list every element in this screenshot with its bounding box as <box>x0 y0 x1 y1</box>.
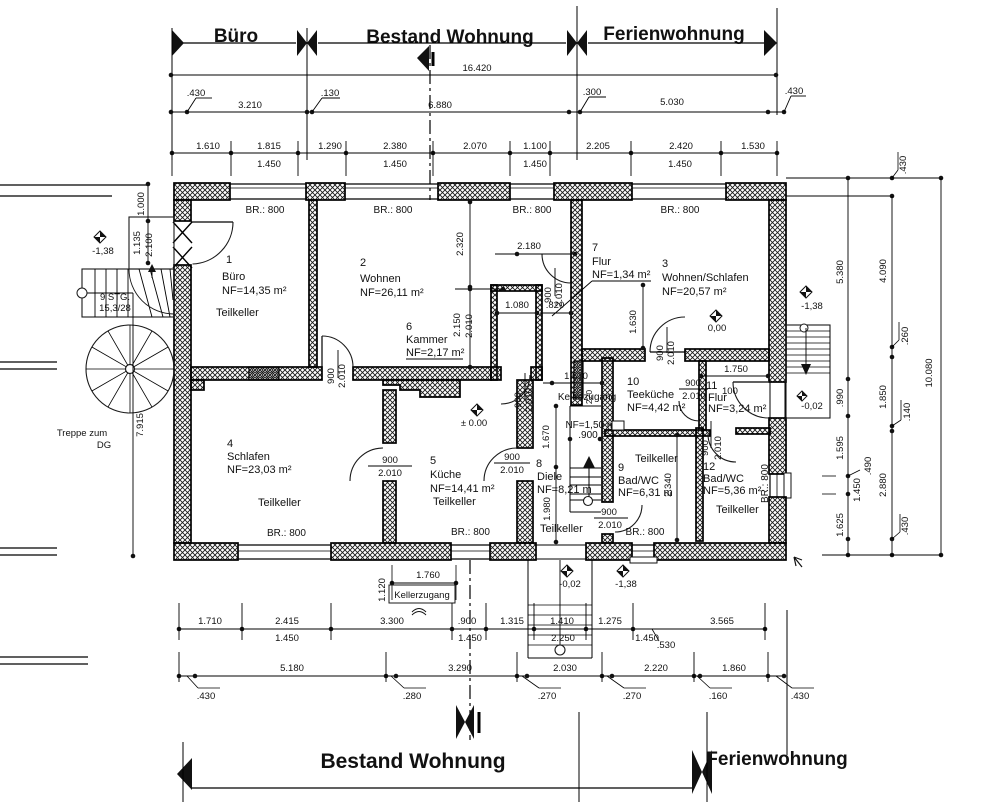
kueche right wall upper <box>517 380 533 448</box>
svg-text:.530: .530 <box>657 640 676 651</box>
wall X mark lower <box>173 247 192 268</box>
outer bottom wall pier 174-238 <box>174 543 238 560</box>
dim 1.610 line <box>543 382 602 384</box>
door room3 leaf <box>650 351 685 353</box>
chain2 dot 187 <box>185 110 190 115</box>
chain B1 dot 586 <box>584 627 589 632</box>
svg-text:.260: .260 <box>900 327 911 346</box>
svg-text:2.150: 2.150 <box>452 313 463 337</box>
bottom bowtie <box>692 750 702 794</box>
room12 door dim line rot <box>710 421 712 448</box>
svg-text:1.450: 1.450 <box>257 159 281 170</box>
chain B2 dot 396 <box>394 674 399 679</box>
right chain A dot 494 <box>846 492 851 497</box>
section marker bottom bar <box>478 712 481 733</box>
chain B2 dot 179 <box>177 674 182 679</box>
svg-text:.900: .900 <box>578 430 598 441</box>
chain3 dot 721 <box>719 151 724 156</box>
chain B2 dot 517 <box>515 674 520 679</box>
svg-text:1.315: 1.315 <box>500 616 524 627</box>
svg-text:2.010: 2.010 <box>713 436 724 460</box>
kellerzugang box <box>389 585 455 603</box>
kammer left wall <box>491 285 497 380</box>
chain B1 tick 534 <box>533 603 535 640</box>
outer bottom wall pier 586-632 <box>586 543 632 560</box>
chain B1 dot 486 <box>484 627 489 632</box>
wall V4 between 10 and 11 <box>699 361 706 430</box>
level -0,02 bottom diamond <box>561 565 573 577</box>
new wall single hatch H1 <box>249 367 279 380</box>
kellerzugang landing rect <box>612 421 624 430</box>
svg-text:900: 900 <box>700 440 711 456</box>
bottom vertical x707 <box>706 712 708 802</box>
svg-text:8: 8 <box>536 458 542 470</box>
right dim .140 leader <box>892 420 901 426</box>
chain3 dot 231 <box>229 151 234 156</box>
dim 2.320 dots <box>468 200 473 205</box>
section marker top triangle <box>417 46 429 71</box>
door corridor .820 arc <box>542 254 571 283</box>
right chain B dot 426 <box>890 424 895 429</box>
chain B2 tick 694 <box>693 652 695 682</box>
svg-text:1.670: 1.670 <box>541 425 552 449</box>
room3 door dim line rot <box>666 327 668 353</box>
right wall window <box>769 474 771 497</box>
svg-text:1.100: 1.100 <box>523 141 547 152</box>
svg-text:Ferienwohnung: Ferienwohnung <box>603 24 744 45</box>
svg-text:2.100: 2.100 <box>144 233 155 257</box>
svg-text:Bestand Wohnung: Bestand Wohnung <box>366 27 533 48</box>
svg-text:1.750: 1.750 <box>724 364 748 375</box>
kammer floor right <box>531 367 542 380</box>
porch dim dot a <box>146 182 151 187</box>
dim 1.760 witness <box>391 565 393 600</box>
boundary line low a <box>0 547 57 549</box>
section line top <box>429 45 431 200</box>
svg-text:1.450: 1.450 <box>275 633 299 644</box>
dim 1.760 line <box>392 582 456 584</box>
wall V2 corridor-flur <box>571 200 582 405</box>
kellerzugang start circle <box>584 497 593 506</box>
svg-text:NF=2,17 m²: NF=2,17 m² <box>406 347 465 359</box>
svg-text:DG: DG <box>97 440 111 451</box>
chain B2 dot 386 <box>384 674 389 679</box>
svg-text:Teilkeller: Teilkeller <box>540 523 583 535</box>
door kueche-diele arc <box>484 448 517 481</box>
svg-text:Wohnen: Wohnen <box>360 273 401 285</box>
svg-text:1.980: 1.980 <box>542 497 553 521</box>
door kammer arc <box>501 375 530 404</box>
outer bottom wall pier 331-451 <box>331 543 451 560</box>
stair walk arc <box>129 269 174 314</box>
svg-text:1.450: 1.450 <box>523 159 547 170</box>
outer right wall lower <box>769 497 786 543</box>
porch dim dot b <box>146 219 151 224</box>
chain2 dot 312 <box>310 110 315 115</box>
svg-text:2.010: 2.010 <box>378 468 402 479</box>
right chain B dot 431 <box>890 429 895 434</box>
svg-text:.270: .270 <box>538 691 557 702</box>
svg-text:NF=1,34 m²: NF=1,34 m² <box>592 269 651 281</box>
right chain B dot 555 <box>890 553 895 558</box>
chain B2 tick 179 <box>178 652 180 682</box>
level marker -1,38 left diamond <box>94 231 106 243</box>
svg-text:3.290: 3.290 <box>448 663 472 674</box>
svg-text:1.530: 1.530 <box>741 141 765 152</box>
right wall window sill <box>784 473 791 498</box>
chain B2 dot 527 <box>525 674 530 679</box>
chain B2 tick 517 <box>516 652 518 682</box>
door room3 arc <box>650 317 685 352</box>
svg-text:.130: .130 <box>321 88 340 99</box>
chain B2 dot 195 <box>193 674 198 679</box>
spiral dim dot bottom <box>131 554 136 559</box>
outer top wall pier 726-786 <box>726 183 786 200</box>
svg-text:1.000: 1.000 <box>136 192 147 216</box>
svg-text:.430: .430 <box>187 88 206 99</box>
svg-text:6.880: 6.880 <box>428 100 452 111</box>
svg-text:Büro: Büro <box>214 26 258 47</box>
svg-text:10: 10 <box>627 376 639 388</box>
svg-text:Schlafen: Schlafen <box>227 451 270 463</box>
svg-text:-0,02: -0,02 <box>559 579 581 590</box>
chain B1 dot 452 <box>450 627 455 632</box>
wall H1 mid segment <box>353 367 491 380</box>
chain2 dot 580 <box>578 110 583 115</box>
kellerzugang dim dots <box>568 437 573 442</box>
svg-text:BR.: 800: BR.: 800 <box>267 528 306 539</box>
svg-text:BR.: 800: BR.: 800 <box>374 205 413 216</box>
svg-text:.300: .300 <box>583 87 602 98</box>
wall 9-12 <box>696 428 703 541</box>
svg-text:2.010: 2.010 <box>500 465 524 476</box>
chain B2 leader .160 at 718 <box>697 676 710 688</box>
flur7 door dim line rot <box>554 268 556 296</box>
door teekueche arc <box>679 401 699 421</box>
chain2 dot 171 <box>169 110 174 115</box>
chain B1 tick 242 <box>241 603 243 640</box>
svg-text:1.290: 1.290 <box>318 141 342 152</box>
svg-text:2.010: 2.010 <box>598 520 622 531</box>
top vertical x172 <box>171 28 173 160</box>
wall H1 left segment <box>191 367 322 380</box>
outer bottom wall pier 654-786 <box>654 543 786 560</box>
boundary line mid b <box>0 368 57 370</box>
svg-text:900: 900 <box>543 287 554 303</box>
section marker top bar <box>432 52 435 66</box>
svg-text:1.410: 1.410 <box>550 616 574 627</box>
dim 16.420 line <box>171 74 776 76</box>
chain B1 tick 486 <box>485 603 487 640</box>
chain2 dot 768 <box>766 110 771 115</box>
top label line seg2 <box>318 42 566 44</box>
chain B1 tick 586 <box>585 603 587 640</box>
svg-text:NF=26,11 m²: NF=26,11 m² <box>360 287 424 299</box>
right chain B dot 357 <box>890 355 895 360</box>
svg-text:Teilkeller: Teilkeller <box>216 307 259 319</box>
door5d dim line <box>494 462 530 464</box>
chain3 dot 631 <box>629 151 634 156</box>
svg-text:1.450: 1.450 <box>852 478 863 502</box>
svg-text:BR.: 800: BR.: 800 <box>661 205 700 216</box>
svg-text:2.010: 2.010 <box>524 388 535 412</box>
svg-text:-1,38: -1,38 <box>92 246 114 257</box>
top vertical x777 <box>776 8 778 115</box>
door buero arc <box>193 222 234 264</box>
svg-text:.140: .140 <box>902 403 913 422</box>
svg-text:1.450: 1.450 <box>458 633 482 644</box>
svg-text:1.710: 1.710 <box>198 616 222 627</box>
svg-text:.900: .900 <box>458 616 477 627</box>
svg-text:1.120: 1.120 <box>377 578 388 602</box>
wall room3 floor right <box>685 349 769 361</box>
svg-text:1.135: 1.135 <box>132 231 143 255</box>
chain3 dot 510 <box>508 151 513 156</box>
porch dim dot c <box>146 261 151 266</box>
boundary line top a <box>0 184 148 186</box>
right stair witness a <box>822 475 836 477</box>
right level -0,02 diamond <box>797 391 807 401</box>
chain B1 tick 331 <box>330 603 332 640</box>
bottom window sill 632-654 <box>630 557 657 563</box>
outer top wall pier 306-345 <box>306 183 345 200</box>
wall room12 top <box>736 428 770 434</box>
dim 1.980 line <box>555 467 557 542</box>
boundary line low b <box>0 554 57 556</box>
svg-text:2.205: 2.205 <box>586 141 610 152</box>
svg-text:-1,38: -1,38 <box>615 579 637 590</box>
svg-text:7.915: 7.915 <box>135 413 146 437</box>
svg-text:900: 900 <box>601 507 617 518</box>
dim .820 line <box>540 312 571 314</box>
svg-text:± 0.00: ± 0.00 <box>461 418 487 429</box>
svg-text:Teilkeller: Teilkeller <box>635 453 678 465</box>
dim chain2 line <box>171 111 784 113</box>
chain3 dot 172 <box>170 151 175 156</box>
outer left wall lower <box>174 265 191 543</box>
door room4-5 arc <box>350 448 383 481</box>
bottom vertical x183 <box>182 742 184 802</box>
chain B1 dot 242 <box>240 627 245 632</box>
wall V3 lower pier <box>602 534 613 543</box>
svg-text:0,00: 0,00 <box>708 323 727 334</box>
chain B1 dot 179 <box>177 627 182 632</box>
right bottom ref line <box>822 554 941 556</box>
svg-text:3.210: 3.210 <box>238 100 262 111</box>
svg-text:.270: .270 <box>623 691 642 702</box>
svg-text:BR.: 800: BR.: 800 <box>451 527 490 538</box>
svg-text:Teilkeller: Teilkeller <box>258 497 301 509</box>
svg-text:NF=3,24 m²: NF=3,24 m² <box>708 403 767 415</box>
chain B2 leader .270 at 632 <box>607 676 624 688</box>
svg-text:1.630: 1.630 <box>628 310 639 334</box>
boundary line bottom b <box>0 663 88 665</box>
new wall single hatch V2 <box>574 361 583 398</box>
svg-text:1.080: 1.080 <box>505 300 529 311</box>
svg-text:BR.: 800: BR.: 800 <box>513 205 552 216</box>
chain B1 dot 633 <box>631 627 636 632</box>
section line bottom <box>469 560 471 740</box>
chain3 tick 346 <box>345 141 347 176</box>
kellerzugang stair treads <box>569 406 571 512</box>
stair walk arrow <box>151 269 153 278</box>
chain B2 leader .430 at 800 <box>776 676 792 688</box>
svg-text:2.880: 2.880 <box>878 473 889 497</box>
chain3 dot 777 <box>775 151 780 156</box>
svg-text:NF=4,42 m²: NF=4,42 m² <box>627 402 686 414</box>
svg-text:.280: .280 <box>403 691 422 702</box>
svg-text:6: 6 <box>406 321 412 333</box>
chain B2 dot 602 <box>600 674 605 679</box>
section marker bottom bowtie <box>456 705 465 739</box>
svg-text:2.010: 2.010 <box>682 391 706 402</box>
chain2 leader .130 <box>312 98 322 112</box>
svg-text:.430: .430 <box>898 156 909 175</box>
door wohnen arc <box>322 336 353 367</box>
svg-text:1.610: 1.610 <box>196 141 220 152</box>
svg-text:2.010: 2.010 <box>666 341 677 365</box>
chain B2 dot 784 <box>782 674 787 679</box>
svg-text:10.080: 10.080 <box>924 358 935 387</box>
svg-text:5.030: 5.030 <box>660 97 684 108</box>
right dim .430 top leader <box>892 170 898 178</box>
chain2 dot 307 <box>305 110 310 115</box>
top bowtie 2 <box>567 30 577 56</box>
door45 dim line <box>368 465 412 467</box>
svg-text:NF=23,03 m²: NF=23,03 m² <box>227 464 292 476</box>
chain3 dot 298 <box>296 151 301 156</box>
chain B1 tick 179 <box>178 603 180 640</box>
chain2 leader .430 L <box>187 98 196 112</box>
svg-text:BR.: 800: BR.: 800 <box>626 527 665 538</box>
door flur11-12 arc <box>733 382 769 418</box>
chain B2 leader .280 at 412 <box>391 676 404 688</box>
svg-text:Kellerzugang: Kellerzugang <box>394 590 449 601</box>
top bowtie 1 <box>297 30 307 56</box>
outer top wall pier 554-632 <box>554 183 632 200</box>
spiral dim vertical <box>132 293 134 556</box>
door flur11-12 leaf <box>733 381 768 383</box>
svg-text:1.850: 1.850 <box>878 385 889 409</box>
top window 510-554 <box>510 183 554 185</box>
svg-text:2.340: 2.340 <box>663 473 674 497</box>
svg-text:-0,02: -0,02 <box>801 401 823 412</box>
chain3 tick 298 <box>297 141 299 176</box>
wall between 4 and 5 lower <box>383 481 396 543</box>
chain3 tick 777 <box>776 141 778 176</box>
outer right wall upper <box>769 200 786 382</box>
outer bottom wall pier 490-536 <box>490 543 536 560</box>
svg-text:Treppe zum: Treppe zum <box>57 428 107 439</box>
right chain A dot 416 <box>846 414 851 419</box>
svg-text:2.180: 2.180 <box>517 241 541 252</box>
svg-text:2: 2 <box>360 257 366 269</box>
svg-text:NF=20,57 m²: NF=20,57 m² <box>662 286 727 298</box>
top vertical x307 <box>306 28 308 160</box>
dim 2.150 line <box>469 287 471 367</box>
wall teekueche floor <box>605 430 710 436</box>
door2 dim line rot <box>337 350 339 378</box>
wall X mark upper <box>173 222 192 243</box>
svg-text:1.595: 1.595 <box>835 436 846 460</box>
door room12 arc <box>708 434 736 462</box>
svg-text:2.070: 2.070 <box>463 141 487 152</box>
chain B1 dot 765 <box>763 627 768 632</box>
wall room3 floor <box>582 349 645 361</box>
right level -1,38 diamond <box>800 286 812 298</box>
right horiz line y178 <box>786 177 941 179</box>
svg-text:Wohnen/Schlafen: Wohnen/Schlafen <box>662 272 749 284</box>
chain B2 tick 386 <box>385 652 387 682</box>
svg-text:5.380: 5.380 <box>835 260 846 284</box>
svg-text:Bad/WC: Bad/WC <box>618 475 659 487</box>
svg-text:1.450: 1.450 <box>668 159 692 170</box>
chain B2 tick 768 <box>767 652 769 682</box>
bottom window 238-331 <box>238 544 331 546</box>
svg-text:.430: .430 <box>197 691 216 702</box>
kellerzugang walk arrow <box>583 456 595 468</box>
room3 level diamond <box>710 310 722 322</box>
right dim .260 leader <box>892 340 899 347</box>
svg-text:1.860: 1.860 <box>722 663 746 674</box>
chain3 tick 721 <box>720 141 722 176</box>
bottom window 632-654 <box>632 544 654 546</box>
svg-text:NF=14,35 m²: NF=14,35 m² <box>222 285 287 297</box>
svg-text:7: 7 <box>592 242 598 254</box>
outer right wall mid <box>769 418 786 474</box>
svg-text:.490: .490 <box>863 457 874 476</box>
svg-text:900: 900 <box>382 455 398 466</box>
svg-text:1.450: 1.450 <box>383 159 407 170</box>
door bad9 arc <box>615 505 642 532</box>
svg-text:2.380: 2.380 <box>383 141 407 152</box>
svg-text:3.300: 3.300 <box>380 616 404 627</box>
chain B1 tick 765 <box>764 603 766 640</box>
room9 door dim line <box>594 517 628 519</box>
svg-text:2.010: 2.010 <box>337 364 348 388</box>
svg-text:Kammer: Kammer <box>406 334 448 346</box>
svg-text:BR.: 800: BR.: 800 <box>246 205 285 216</box>
right chain B dot 539 <box>890 537 895 542</box>
dim 2.340 line <box>676 435 678 540</box>
outer top wall pier 174-230 <box>174 183 230 200</box>
chain B1 tick 452 <box>451 603 453 640</box>
right horiz y178 dots <box>846 176 851 181</box>
chain B2 tick 602 <box>601 652 603 682</box>
dim 2.180 witness <box>455 288 503 290</box>
svg-text:NF=14,41 m²: NF=14,41 m² <box>430 483 495 495</box>
right chain C line <box>940 178 942 555</box>
dim 16.420 dot L <box>169 73 174 78</box>
boundary line mid a <box>0 361 57 363</box>
chain B2 dot 694 <box>692 674 697 679</box>
bottom window 451-490 <box>451 544 490 546</box>
chain B2 dot 768 <box>766 674 771 679</box>
squiggle below box <box>412 609 426 616</box>
svg-text:2.010: 2.010 <box>554 283 565 307</box>
svg-text:Diele: Diele <box>537 471 562 483</box>
wall V3 left of bad9 <box>602 358 613 502</box>
right chain B dot 347 <box>890 345 895 350</box>
dim 16.420 dot R <box>774 73 779 78</box>
outer top wall pier 438-510 <box>438 183 510 200</box>
svg-text:12: 12 <box>703 461 715 473</box>
svg-text:2.220: 2.220 <box>644 663 668 674</box>
porch dim line vertical <box>147 184 149 265</box>
spiral stair <box>86 325 174 413</box>
boundary line bottom a <box>0 656 88 658</box>
bottom chain1 line <box>179 628 765 630</box>
